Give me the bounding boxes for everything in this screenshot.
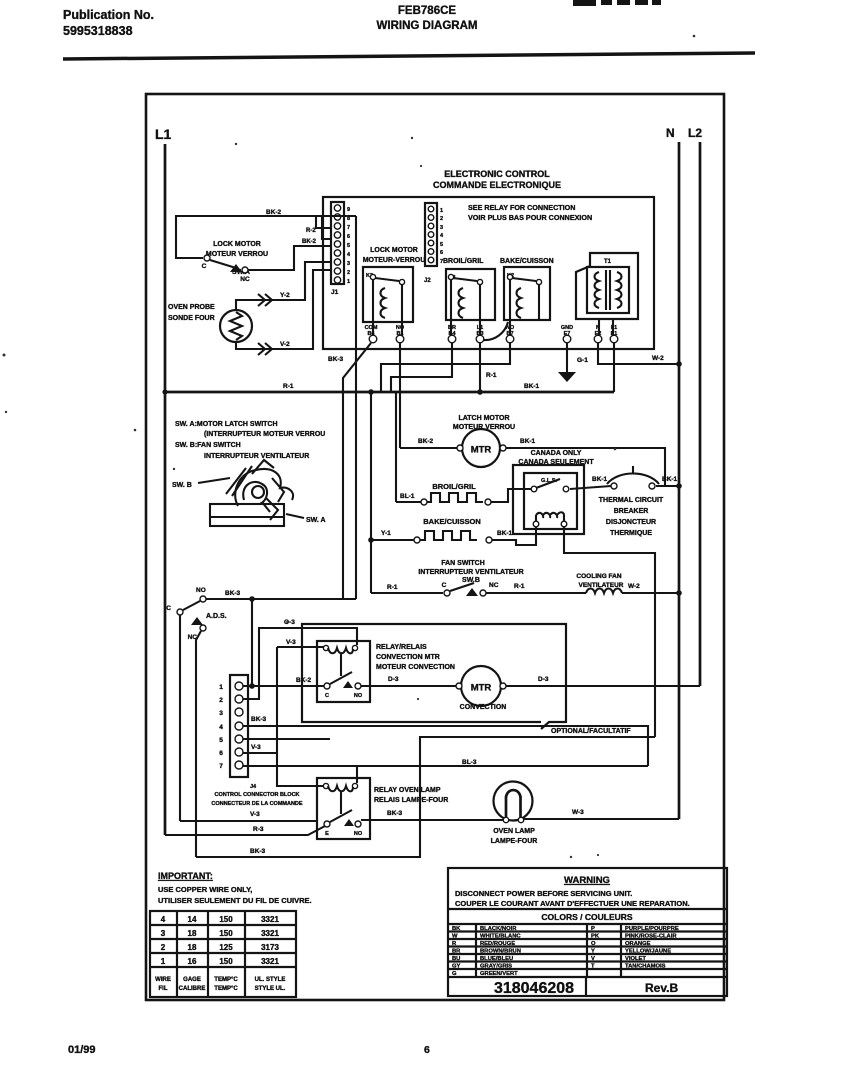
- svg-text:5995318838: 5995318838: [63, 24, 133, 38]
- svg-text:BK-3: BK-3: [225, 590, 241, 597]
- svg-text:NO: NO: [196, 587, 206, 594]
- svg-text:RED/ROUGE: RED/ROUGE: [480, 941, 515, 947]
- svg-text:GAGE: GAGE: [183, 977, 201, 983]
- svg-text:CALIBRE: CALIBRE: [179, 986, 206, 992]
- svg-text:Y: Y: [591, 949, 595, 955]
- svg-text:R-1: R-1: [514, 583, 525, 590]
- svg-text:BL-1: BL-1: [400, 493, 415, 500]
- svg-text:BK-1: BK-1: [662, 476, 678, 483]
- svg-text:WARNING: WARNING: [564, 875, 610, 886]
- svg-text:2: 2: [219, 697, 223, 704]
- svg-text:SEE RELAY FOR CONNECTION: SEE RELAY FOR CONNECTION: [468, 203, 575, 212]
- svg-text:6: 6: [219, 750, 223, 757]
- svg-text:WIRE: WIRE: [155, 977, 171, 983]
- svg-text:7: 7: [219, 763, 223, 770]
- svg-text:R-2: R-2: [306, 228, 316, 234]
- svg-text:BK-1: BK-1: [520, 438, 536, 445]
- svg-text:3321: 3321: [261, 957, 279, 966]
- svg-text:BU: BU: [452, 956, 460, 962]
- svg-text:C: C: [442, 582, 447, 589]
- svg-text:Publication No.: Publication No.: [63, 8, 154, 22]
- svg-text:J1: J1: [331, 289, 339, 296]
- svg-text:BK-3: BK-3: [328, 356, 344, 363]
- svg-text:COUPER LE COURANT AVANT D'EFFE: COUPER LE COURANT AVANT D'EFFECTUER UNE …: [455, 899, 690, 908]
- svg-text:BK-2: BK-2: [302, 239, 317, 245]
- svg-text:MOTEUR VERROU: MOTEUR VERROU: [206, 251, 268, 258]
- svg-text:DISCONNECT POWER BEFORE SERVIC: DISCONNECT POWER BEFORE SERVICING UNIT.: [455, 889, 632, 898]
- svg-text:YELLOW/JAUNE: YELLOW/JAUNE: [625, 949, 671, 955]
- svg-text:INTERRUPTEUR VENTILATEUR: INTERRUPTEUR VENTILATEUR: [204, 453, 309, 460]
- svg-text:OPTIONAL/FACULTATIF: OPTIONAL/FACULTATIF: [551, 728, 631, 735]
- svg-text:LOCK MOTOR: LOCK MOTOR: [213, 241, 261, 248]
- svg-text:MTR: MTR: [471, 683, 492, 694]
- svg-text:B6: B6: [367, 331, 374, 337]
- svg-text:C: C: [166, 605, 171, 612]
- svg-text:2: 2: [440, 216, 443, 222]
- svg-text:V-3: V-3: [250, 811, 260, 818]
- svg-text:B4: B4: [448, 331, 456, 337]
- svg-text:BK-1: BK-1: [592, 476, 608, 483]
- svg-text:VOIR PLUS BAS POUR CONNEXION: VOIR PLUS BAS POUR CONNEXION: [468, 213, 592, 222]
- svg-text:J2: J2: [424, 278, 431, 284]
- svg-text:BROIL/GRIL: BROIL/GRIL: [432, 482, 476, 491]
- svg-text:B7: B7: [506, 331, 513, 337]
- svg-text:WIRING DIAGRAM: WIRING DIAGRAM: [377, 20, 478, 32]
- svg-text:BL-3: BL-3: [462, 759, 477, 766]
- svg-text:Rev.B: Rev.B: [645, 981, 678, 995]
- svg-text:150: 150: [219, 929, 233, 938]
- svg-text:VIOLET: VIOLET: [625, 956, 646, 962]
- svg-text:G-1: G-1: [577, 357, 588, 364]
- svg-text:THERMIQUE: THERMIQUE: [610, 530, 652, 537]
- svg-text:COOLING FAN: COOLING FAN: [576, 573, 621, 580]
- svg-text:R-1: R-1: [486, 372, 497, 379]
- svg-text:BREAKER: BREAKER: [614, 508, 649, 515]
- svg-text:IMPORTANT:: IMPORTANT:: [158, 871, 213, 881]
- svg-text:6: 6: [347, 234, 350, 240]
- svg-text:STYLE UL.: STYLE UL.: [255, 986, 286, 992]
- svg-text:USE COPPER WIRE ONLY,: USE COPPER WIRE ONLY,: [158, 885, 252, 894]
- svg-text:W-2: W-2: [652, 355, 664, 362]
- svg-text:C: C: [325, 693, 329, 699]
- svg-text:V-2: V-2: [280, 341, 290, 348]
- svg-text:G: G: [452, 971, 457, 977]
- svg-text:Y-2: Y-2: [280, 292, 290, 299]
- svg-text:SW. A: SW. A: [306, 517, 326, 524]
- svg-text:5: 5: [347, 243, 350, 249]
- svg-text:125: 125: [219, 943, 233, 952]
- svg-text:NO: NO: [354, 831, 363, 837]
- svg-text:L2: L2: [688, 126, 702, 140]
- svg-text:BK-1: BK-1: [524, 383, 540, 390]
- svg-text:SW. B: SW. B: [172, 482, 192, 489]
- svg-text:W: W: [452, 934, 458, 940]
- svg-text:3: 3: [440, 225, 443, 231]
- svg-text:BK-2: BK-2: [418, 438, 434, 445]
- svg-text:RELAIS LAMPE-FOUR: RELAIS LAMPE-FOUR: [374, 797, 448, 804]
- svg-text:R-1: R-1: [387, 584, 398, 591]
- svg-text:OVEN PROBE: OVEN PROBE: [168, 304, 215, 311]
- svg-text:BR: BR: [452, 949, 461, 955]
- svg-text:3: 3: [347, 261, 350, 267]
- svg-text:BAKE/CUISSON: BAKE/CUISSON: [423, 517, 481, 526]
- svg-text:LOCK MOTOR: LOCK MOTOR: [370, 247, 418, 254]
- svg-text:BROWN/BRUN: BROWN/BRUN: [480, 949, 521, 955]
- svg-text:BK: BK: [452, 926, 461, 932]
- svg-text:6: 6: [424, 1044, 430, 1056]
- svg-text:L1: L1: [155, 126, 172, 142]
- svg-text:1: 1: [161, 957, 166, 966]
- svg-text:UTILISER SEULEMENT DU FIL DE C: UTILISER SEULEMENT DU FIL DE CUIVRE.: [158, 896, 312, 905]
- svg-text:6: 6: [440, 250, 443, 256]
- svg-text:MOTEUR CONVECTION: MOTEUR CONVECTION: [376, 664, 455, 671]
- svg-text:BK-3: BK-3: [251, 716, 267, 723]
- svg-text:A.D.S.: A.D.S.: [206, 613, 227, 620]
- svg-text:BROIL/GRIL: BROIL/GRIL: [443, 258, 484, 265]
- svg-text:BLACK/NOIR: BLACK/NOIR: [480, 926, 517, 932]
- svg-text:(INTERRUPTEUR MOTEUR VERROU: (INTERRUPTEUR MOTEUR VERROU: [204, 431, 325, 438]
- svg-text:NC: NC: [489, 582, 499, 589]
- svg-text:GREEN/VERT: GREEN/VERT: [480, 971, 518, 977]
- svg-text:Y-1: Y-1: [381, 530, 391, 537]
- svg-text:SONDE FOUR: SONDE FOUR: [168, 315, 215, 322]
- svg-text:E: E: [325, 831, 329, 837]
- svg-text:ORANGE: ORANGE: [625, 941, 651, 947]
- svg-text:MOTEUR-VERROU: MOTEUR-VERROU: [363, 257, 426, 264]
- svg-text:T1: T1: [604, 259, 612, 265]
- svg-text:V-3: V-3: [251, 744, 261, 751]
- svg-text:9: 9: [347, 207, 350, 213]
- svg-text:01/99: 01/99: [68, 1044, 96, 1056]
- svg-text:TAN/CHAMOIS: TAN/CHAMOIS: [625, 964, 666, 970]
- svg-text:BK-1: BK-1: [497, 530, 513, 537]
- svg-text:WHITE/BLANC: WHITE/BLANC: [480, 934, 521, 940]
- svg-text:3173: 3173: [261, 943, 279, 952]
- svg-text:14: 14: [188, 915, 197, 924]
- svg-text:OVEN LAMP: OVEN LAMP: [493, 828, 535, 835]
- svg-text:BAKE/CUISSON: BAKE/CUISSON: [500, 258, 554, 265]
- svg-text:BK-2: BK-2: [296, 677, 312, 684]
- svg-text:4: 4: [219, 724, 223, 731]
- svg-text:T: T: [591, 964, 595, 970]
- svg-text:18: 18: [188, 929, 197, 938]
- svg-text:THERMAL CIRCUIT: THERMAL CIRCUIT: [599, 497, 664, 504]
- svg-text:VENTILATEUR: VENTILATEUR: [578, 582, 623, 589]
- svg-text:3321: 3321: [261, 929, 279, 938]
- svg-text:P: P: [591, 926, 595, 932]
- svg-text:5: 5: [440, 242, 443, 248]
- svg-text:4: 4: [161, 915, 166, 924]
- svg-text:TEMP°C: TEMP°C: [214, 986, 238, 992]
- svg-text:B1: B1: [396, 331, 403, 337]
- svg-text:3321: 3321: [261, 915, 279, 924]
- svg-text:ELECTRONIC CONTROL: ELECTRONIC CONTROL: [444, 169, 550, 179]
- svg-text:D-3: D-3: [538, 676, 549, 683]
- svg-text:V: V: [591, 956, 595, 962]
- svg-text:O: O: [591, 941, 596, 947]
- svg-text:SW. A:MOTOR LATCH SWITCH: SW. A:MOTOR LATCH SWITCH: [175, 421, 278, 428]
- svg-text:GY: GY: [452, 964, 461, 970]
- svg-text:BLUE/BLEU: BLUE/BLEU: [480, 956, 513, 962]
- svg-text:CONVECTION MTR: CONVECTION MTR: [376, 654, 440, 661]
- svg-text:DISJONCTEUR: DISJONCTEUR: [606, 519, 656, 526]
- svg-text:CONVECTION: CONVECTION: [460, 704, 507, 711]
- svg-text:CONTROL CONNECTOR BLOCK: CONTROL CONNECTOR BLOCK: [214, 792, 299, 798]
- svg-text:318046208: 318046208: [494, 980, 574, 997]
- svg-text:BK-3: BK-3: [387, 810, 403, 817]
- svg-text:LATCH MOTOR: LATCH MOTOR: [458, 415, 509, 422]
- svg-text:3: 3: [219, 710, 223, 717]
- svg-text:J4: J4: [250, 784, 257, 790]
- svg-text:BK-3: BK-3: [250, 848, 266, 855]
- svg-text:18: 18: [188, 943, 197, 952]
- svg-text:D-3: D-3: [388, 676, 399, 683]
- svg-text:150: 150: [219, 915, 233, 924]
- svg-text:E7: E7: [564, 331, 571, 337]
- svg-text:CONNECTEUR DE LA COMMANDE: CONNECTEUR DE LA COMMANDE: [211, 801, 302, 807]
- svg-text:RELAY OVEN LAMP: RELAY OVEN LAMP: [374, 787, 441, 794]
- svg-text:SW. B:FAN SWITCH: SW. B:FAN SWITCH: [175, 442, 241, 449]
- svg-text:COLORS / COULEURS: COLORS / COULEURS: [541, 912, 632, 922]
- svg-text:GRAY/GRIS: GRAY/GRIS: [480, 964, 512, 970]
- svg-text:1: 1: [440, 208, 443, 214]
- svg-text:3: 3: [161, 929, 166, 938]
- svg-text:7: 7: [347, 225, 350, 231]
- svg-text:FEB786CE: FEB786CE: [398, 5, 456, 17]
- svg-text:2: 2: [347, 270, 350, 276]
- svg-text:FIL: FIL: [159, 986, 168, 992]
- svg-text:O-3: O-3: [284, 619, 295, 626]
- svg-text:16: 16: [188, 957, 197, 966]
- svg-text:150: 150: [219, 957, 233, 966]
- svg-text:V-3: V-3: [286, 639, 296, 646]
- svg-text:2: 2: [161, 943, 166, 952]
- svg-text:R-1: R-1: [283, 383, 294, 390]
- svg-text:C: C: [202, 263, 207, 270]
- svg-text:FAN SWITCH: FAN SWITCH: [441, 560, 485, 567]
- svg-text:MTR: MTR: [471, 445, 492, 456]
- svg-text:PINK/ROSE-CLAIR: PINK/ROSE-CLAIR: [625, 934, 677, 940]
- svg-text:COMMANDE ELECTRONIQUE: COMMANDE ELECTRONIQUE: [433, 180, 561, 190]
- svg-text:B3: B3: [476, 331, 483, 337]
- svg-text:N: N: [666, 126, 675, 140]
- svg-text:PK: PK: [591, 934, 600, 940]
- svg-text:CANADA ONLY: CANADA ONLY: [531, 450, 582, 457]
- svg-text:5: 5: [219, 737, 223, 744]
- svg-text:NC: NC: [240, 276, 250, 283]
- svg-text:LAMPE-FOUR: LAMPE-FOUR: [491, 838, 538, 845]
- svg-text:R-3: R-3: [253, 826, 264, 833]
- svg-text:TEMP°C: TEMP°C: [214, 977, 238, 983]
- svg-text:1: 1: [219, 684, 223, 691]
- svg-text:INTERRUPTEUR VENTILATEUR: INTERRUPTEUR VENTILATEUR: [418, 569, 523, 576]
- svg-text:UL. STYLE: UL. STYLE: [255, 977, 286, 983]
- svg-text:W-3: W-3: [572, 809, 584, 816]
- svg-text:PURPLE/POURPRE: PURPLE/POURPRE: [625, 926, 679, 932]
- svg-text:RELAY/RELAIS: RELAY/RELAIS: [376, 644, 427, 651]
- svg-text:1: 1: [347, 279, 350, 285]
- svg-text:W-2: W-2: [628, 583, 640, 590]
- svg-text:NO: NO: [354, 693, 363, 699]
